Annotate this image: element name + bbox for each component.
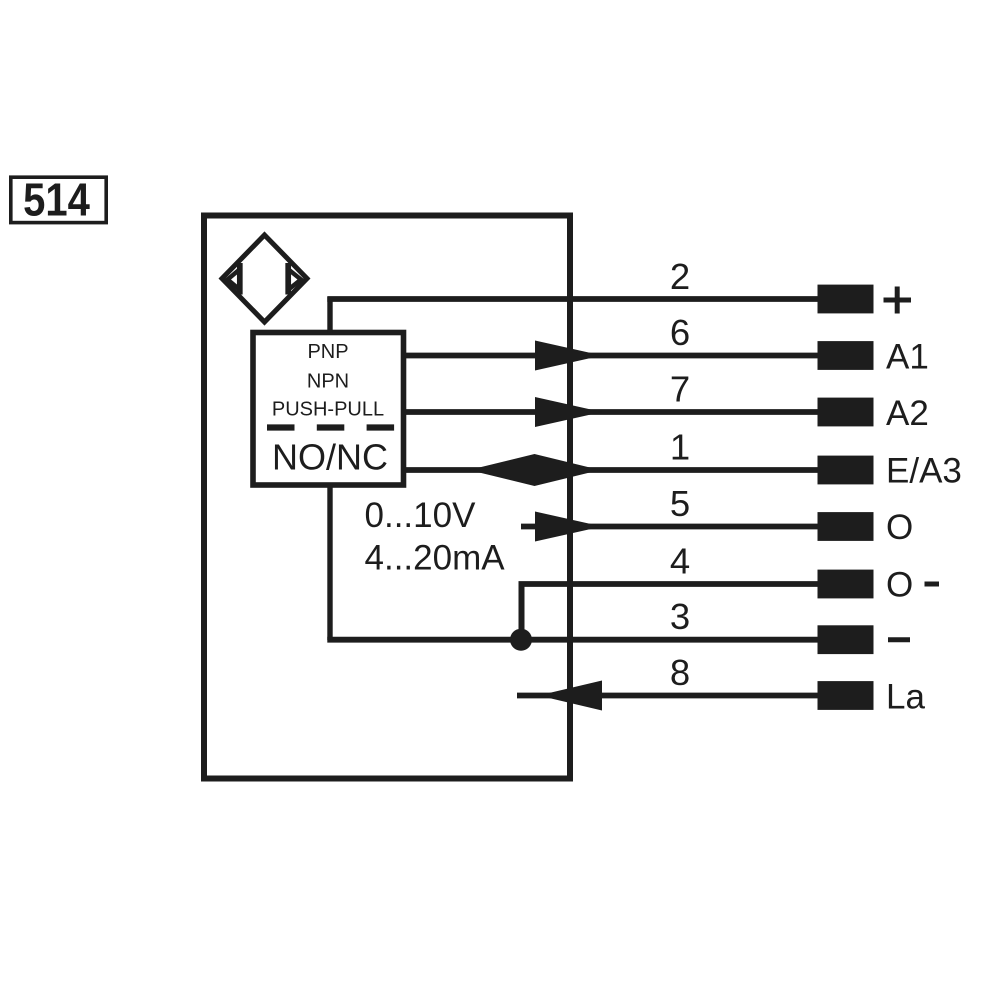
svg-text:0...10V: 0...10V <box>365 496 477 535</box>
arrowhead on wire 7 <box>535 397 602 427</box>
svg-text:1: 1 <box>670 427 690 468</box>
wire 2 (+ supply) <box>327 296 820 302</box>
arrowhead on wire 8 (pointing left) <box>539 681 603 711</box>
wire: vertical from output stage box bottom down to wire 3 <box>327 487 332 640</box>
terminal + <box>818 285 874 314</box>
svg-text:NO/NC: NO/NC <box>272 437 388 478</box>
terminal La <box>818 681 874 710</box>
optical sensor symbol: diamond outline <box>222 235 307 322</box>
svg-text:7: 7 <box>670 369 690 410</box>
optical sensor symbol: left small triangle <box>228 270 240 290</box>
wire: vertical connector from wire 4 down to junction on wire 3 <box>519 582 525 641</box>
label O - (dash) <box>925 582 940 587</box>
terminal A1 <box>818 341 874 370</box>
svg-text:6: 6 <box>670 312 690 353</box>
svg-text:A2: A2 <box>886 394 929 433</box>
svg-text:O: O <box>886 566 913 605</box>
svg-text:PUSH-PULL: PUSH-PULL <box>272 399 384 421</box>
bidirectional diamond arrow on wire 1 <box>469 454 600 486</box>
terminal O <box>818 512 874 541</box>
junction dot <box>510 629 532 651</box>
svg-text:A1: A1 <box>886 337 929 376</box>
label + (horizontal stroke) <box>884 298 912 303</box>
arrowhead on wire 5 <box>535 512 602 542</box>
label + (vertical stroke) <box>895 287 900 314</box>
svg-text:O: O <box>886 508 913 547</box>
terminal E/A3 <box>818 456 874 485</box>
svg-text:NPN: NPN <box>307 371 349 393</box>
wire 8 (teach input La) <box>517 693 820 699</box>
label minus <box>888 637 910 642</box>
wire 5 (analog output O) <box>521 524 820 530</box>
optical sensor symbol: right small triangle <box>289 270 302 290</box>
svg-text:4...20mA: 4...20mA <box>365 539 506 578</box>
output stage box <box>253 333 404 486</box>
figure number box 514 <box>11 177 106 222</box>
svg-text:5: 5 <box>670 483 690 524</box>
optical sensor symbol: left chord bar <box>237 263 243 295</box>
wire 6 (output A1) <box>406 353 820 359</box>
wire 4 (analog ground O-) <box>519 581 821 587</box>
svg-text:2: 2 <box>670 256 690 297</box>
wire 7 (output A2) <box>406 409 820 415</box>
sensor body frame <box>204 216 570 779</box>
wire: vertical from supply wire down to output stage box top <box>327 297 332 333</box>
svg-text:4: 4 <box>670 541 690 582</box>
svg-text:3: 3 <box>670 596 690 637</box>
wire 1 (E/A3 input/output) <box>406 467 820 473</box>
wire 3 (0V minus) <box>327 637 820 643</box>
svg-text:8: 8 <box>670 652 690 693</box>
svg-text:514: 514 <box>23 175 90 227</box>
optical sensor symbol: right chord bar <box>285 263 291 295</box>
terminal O- <box>818 570 874 599</box>
dashed divider <box>267 424 395 430</box>
terminal minus <box>818 625 874 654</box>
svg-text:La: La <box>886 677 925 716</box>
arrowhead on wire 6 <box>535 341 602 371</box>
svg-text:E/A3: E/A3 <box>886 451 962 490</box>
terminal A2 <box>818 398 874 427</box>
svg-text:PNP: PNP <box>307 341 348 363</box>
